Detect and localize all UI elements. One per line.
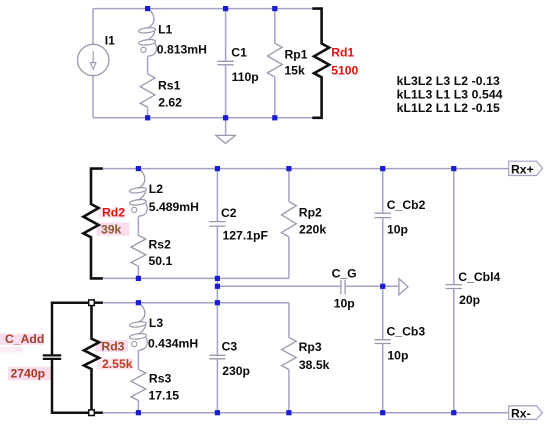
pink highlight band under C_Add — [0, 347, 23, 353]
inductor L2 — [137, 169, 144, 188]
port flag Rx- — [509, 406, 543, 420]
resistor Rd3 (black) — [84, 306, 99, 411]
svg-text:Rx-: Rx- — [511, 407, 531, 421]
node junction 4 — [223, 115, 228, 120]
wire C_Cbl4 top lead — [453, 169, 455, 285]
svg-text:Rd3: Rd3 — [101, 339, 124, 353]
pink highlight 2.55k — [97, 358, 133, 370]
svg-text:Rs3: Rs3 — [149, 372, 172, 386]
wire I1 top lead — [92, 9, 94, 45]
black stub bottom — [94, 411, 103, 414]
svg-text:2.62: 2.62 — [158, 95, 182, 109]
svg-text:C_Cb2: C_Cb2 — [387, 198, 426, 212]
wire Rp2 top lead — [288, 169, 290, 202]
wire Rp2 bottom lead — [288, 237, 290, 279]
svg-text:I1: I1 — [105, 34, 115, 48]
pink highlight C_Add — [0, 334, 44, 345]
wire bottom-section bottom rail — [103, 412, 509, 414]
inductor L1 — [147, 9, 154, 28]
wire C_Cb2 bottom lead — [382, 218, 384, 287]
wire Rs1 bottom — [147, 107, 149, 118]
svg-text:C3: C3 — [222, 340, 238, 354]
svg-text:C2: C2 — [221, 206, 237, 220]
wire C3 top lead — [216, 303, 218, 356]
node junction 20 — [286, 410, 291, 415]
wire C2 bottom lead — [216, 226, 218, 278]
svg-text:Rs1: Rs1 — [158, 79, 181, 93]
inductor L3 — [137, 303, 144, 322]
svg-text:127.1pF: 127.1pF — [223, 229, 268, 243]
svg-text:0.813mH: 0.813mH — [157, 43, 207, 57]
svg-text:110p: 110p — [232, 70, 259, 84]
node junction 11 — [286, 166, 291, 171]
capacitor C1 — [217, 60, 233, 62]
capacitor C3 — [209, 354, 225, 356]
wire top rail of I1 section — [93, 8, 312, 10]
wire C2 top lead — [216, 169, 218, 222]
pink highlight Rd2 — [98, 208, 125, 218]
svg-text:220k: 220k — [299, 222, 326, 236]
wire Rp1 bottom lead — [274, 77, 276, 118]
resistor Rs1 — [140, 74, 155, 107]
svg-text:Rd2: Rd2 — [102, 205, 125, 219]
svg-text:kL1L2 L1 L2 -0.15: kL1L2 L1 L2 -0.15 — [397, 101, 500, 115]
svg-text:Rs2: Rs2 — [149, 238, 172, 252]
pink highlight 2740p — [8, 367, 52, 381]
wire bottom rail of I1 section — [93, 117, 312, 119]
svg-text:C_Cbl4: C_Cbl4 — [458, 270, 500, 284]
svg-text:C_G: C_G — [332, 266, 357, 280]
svg-text:C_Add: C_Add — [5, 332, 44, 346]
svg-text:C_Cb3: C_Cb3 — [387, 324, 426, 338]
node junction 13 — [451, 166, 456, 171]
wire I1 bottom lead — [92, 76, 94, 118]
resistor Rs3 — [131, 369, 146, 400]
wire middle top rail — [103, 168, 509, 170]
node junction 2 — [145, 115, 150, 120]
current source I1 — [78, 44, 109, 75]
node junction 21 — [380, 410, 385, 415]
wire middle bottom rail — [103, 277, 289, 279]
svg-text:50.1: 50.1 — [149, 254, 173, 268]
wire C1 bottom lead — [225, 65, 227, 118]
wire C1 top lead — [225, 9, 227, 62]
wire Rs3 bottom — [137, 401, 139, 413]
capacitor C2 — [209, 221, 225, 223]
wire Rs2 bottom — [137, 266, 139, 278]
svg-text:20p: 20p — [459, 293, 480, 307]
capacitor C_Cb2 — [375, 212, 391, 214]
wire ground stub — [225, 118, 227, 136]
svg-text:5.489mH: 5.489mH — [149, 200, 199, 214]
wire C_G rail right — [345, 285, 399, 287]
resistor Rp2 — [282, 202, 297, 237]
wire C_Cbl4 bottom lead — [453, 289, 455, 413]
node junction 16 — [136, 300, 141, 305]
pink highlight Rd3 — [96, 340, 128, 352]
node junction 3 — [223, 6, 228, 11]
svg-text:2.55k: 2.55k — [102, 357, 133, 371]
node junction 12 — [380, 166, 385, 171]
node junction 5 — [272, 6, 277, 11]
node junction 8 — [136, 276, 141, 281]
capacitor C_Cbl4 — [446, 284, 462, 286]
wire Rp1 top lead — [274, 9, 276, 44]
svg-text:L2: L2 — [149, 182, 163, 196]
node junction 17 — [136, 410, 141, 415]
wire L3 to Rs3 — [137, 350, 139, 369]
svg-text:0.434mH: 0.434mH — [148, 337, 198, 351]
svg-text:Rx+: Rx+ — [511, 162, 534, 176]
output port arrow — [399, 279, 408, 295]
wire C2 column down through C_G row — [216, 278, 218, 302]
node junction 1 — [145, 6, 150, 11]
terminal square bottom — [89, 410, 95, 416]
pink highlight 39k — [97, 223, 130, 236]
resistor Rs2 — [131, 235, 146, 266]
node junction 18 — [215, 300, 220, 305]
svg-text:2740p: 2740p — [11, 367, 46, 381]
resistor Rd2 (black) — [83, 169, 102, 279]
svg-text:39k: 39k — [101, 223, 122, 237]
node junction 19 — [215, 410, 220, 415]
svg-text:15k: 15k — [284, 63, 305, 77]
capacitor C_Add loop (black wires) — [52, 303, 89, 356]
svg-text:L3: L3 — [149, 316, 163, 330]
wire Rp3 bottom lead — [288, 370, 290, 413]
svg-text:17.15: 17.15 — [149, 388, 180, 402]
node junction 14 — [215, 284, 220, 289]
svg-text:10p: 10p — [387, 348, 408, 362]
capacitor C_Cb3 — [375, 339, 391, 341]
terminal square top — [89, 300, 95, 306]
svg-text:kL3L2 L3 L2 -0.13: kL3L2 L3 L2 -0.13 — [397, 74, 500, 88]
svg-text:10p: 10p — [387, 222, 408, 236]
wire C_G rail left — [217, 285, 341, 287]
node junction 15 — [380, 284, 385, 289]
capacitor C_G (horizontal) — [340, 280, 342, 295]
node junction 10 — [215, 276, 220, 281]
resistor Rp1 — [267, 43, 282, 77]
node junction 6 — [272, 115, 277, 120]
wire C_Cb3 bottom lead — [382, 344, 384, 413]
svg-text:Rp1: Rp1 — [285, 47, 308, 61]
resistor Rd1 (black) — [312, 9, 329, 118]
svg-text:Rp3: Rp3 — [299, 340, 322, 354]
node junction 9 — [215, 166, 220, 171]
svg-text:Rp2: Rp2 — [299, 206, 322, 220]
svg-text:kL1L3 L1 L3 0.544: kL1L3 L1 L3 0.544 — [397, 87, 503, 101]
svg-text:5100: 5100 — [331, 64, 358, 78]
svg-text:L1: L1 — [158, 23, 172, 37]
wire C3 bottom lead — [216, 359, 218, 413]
node junction 22 — [451, 410, 456, 415]
wire C_Cb3 top lead — [382, 286, 384, 339]
wire L1 to Rs1 — [147, 56, 149, 74]
svg-text:Rd1: Rd1 — [331, 46, 354, 60]
wire L2 to Rs2 — [137, 216, 139, 235]
capacitor C_Add plates — [43, 354, 61, 356]
svg-text:38.5k: 38.5k — [299, 358, 330, 372]
wire Rp3 top lead — [288, 303, 290, 338]
ground — [216, 135, 236, 143]
svg-text:230p: 230p — [222, 364, 250, 378]
black stub top — [94, 301, 103, 304]
resistor Rp3 — [282, 337, 297, 369]
node junction 7 — [136, 166, 141, 171]
wire bottom-section top rail — [103, 302, 289, 304]
wire C_Cb2 top lead — [382, 169, 384, 214]
port flag Rx+ — [509, 161, 543, 175]
svg-text:10p: 10p — [334, 296, 355, 310]
svg-text:C1: C1 — [231, 46, 247, 60]
